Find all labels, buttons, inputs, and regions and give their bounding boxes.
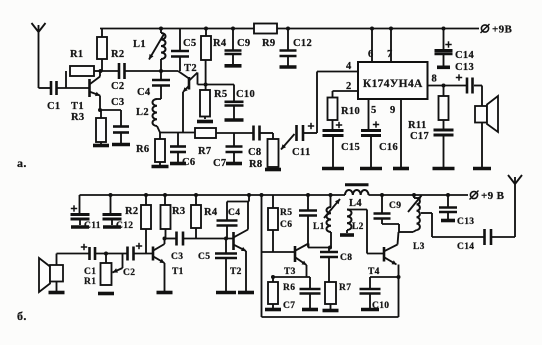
svg-text:C10: C10 <box>372 301 389 311</box>
svg-text:4: 4 <box>346 61 352 72</box>
svg-text:R4: R4 <box>213 38 227 49</box>
svg-text:а.: а. <box>17 156 27 170</box>
svg-text:+9В: +9В <box>492 24 512 36</box>
svg-text:C2: C2 <box>111 81 125 92</box>
svg-text:R1: R1 <box>84 277 96 287</box>
svg-text:+9 В: +9 В <box>481 190 505 202</box>
svg-text:C3: C3 <box>171 252 183 262</box>
svg-text:R7: R7 <box>339 283 351 293</box>
svg-text:5: 5 <box>371 105 377 116</box>
svg-text:C10: C10 <box>236 89 255 100</box>
svg-text:R5: R5 <box>280 208 292 218</box>
svg-text:C1: C1 <box>84 267 96 277</box>
svg-text:R8: R8 <box>249 159 263 170</box>
svg-text:C15: C15 <box>341 142 360 153</box>
svg-text:C2: C2 <box>123 268 135 278</box>
svg-text:R5: R5 <box>214 89 228 100</box>
svg-text:C1: C1 <box>47 101 61 112</box>
svg-text:9: 9 <box>390 105 396 116</box>
svg-text:6: 6 <box>368 49 374 60</box>
svg-text:R11: R11 <box>408 120 427 131</box>
svg-text:б.: б. <box>17 309 27 323</box>
svg-text:R3: R3 <box>172 206 186 217</box>
svg-text:T3: T3 <box>284 267 296 277</box>
svg-text:R3: R3 <box>71 112 85 123</box>
svg-text:L1: L1 <box>313 222 325 232</box>
svg-text:C9: C9 <box>237 38 251 49</box>
svg-text:C12: C12 <box>116 221 133 231</box>
svg-text:C7: C7 <box>213 158 227 169</box>
svg-text:R4: R4 <box>204 207 218 218</box>
svg-text:C11: C11 <box>292 147 311 158</box>
svg-text:L2: L2 <box>136 107 149 118</box>
svg-text:7: 7 <box>387 49 393 60</box>
svg-text:R10: R10 <box>341 106 360 117</box>
svg-text:R6: R6 <box>136 144 150 155</box>
svg-text:R7: R7 <box>198 146 212 157</box>
svg-text:C5: C5 <box>183 38 197 49</box>
svg-text:C4: C4 <box>228 208 240 218</box>
svg-text:T1: T1 <box>172 267 184 277</box>
svg-text:R2: R2 <box>125 206 139 217</box>
svg-text:C9: C9 <box>389 201 401 211</box>
svg-text:R1: R1 <box>70 49 84 60</box>
svg-text:T2: T2 <box>184 63 197 74</box>
svg-text:R2: R2 <box>111 49 125 60</box>
svg-text:C8: C8 <box>340 253 352 263</box>
svg-text:8: 8 <box>432 74 438 85</box>
svg-text:T4: T4 <box>368 267 380 277</box>
svg-text:C3: C3 <box>111 97 125 108</box>
svg-text:L1: L1 <box>133 39 146 50</box>
svg-text:C13: C13 <box>457 217 474 227</box>
svg-text:T2: T2 <box>230 267 242 277</box>
svg-text:C14: C14 <box>457 242 474 252</box>
svg-text:C17: C17 <box>410 131 429 142</box>
svg-text:C11: C11 <box>84 221 101 231</box>
svg-text:R6: R6 <box>283 283 295 293</box>
svg-text:C6: C6 <box>280 220 292 230</box>
svg-text:C13: C13 <box>455 62 474 73</box>
svg-text:C12: C12 <box>293 38 312 49</box>
svg-text:C5: C5 <box>198 252 210 262</box>
svg-text:L3: L3 <box>413 242 425 252</box>
svg-text:К174УН4А: К174УН4А <box>363 78 423 90</box>
svg-text:L4: L4 <box>349 198 362 209</box>
svg-text:T1: T1 <box>71 101 84 112</box>
svg-text:C7: C7 <box>283 301 295 311</box>
svg-text:C8: C8 <box>248 147 262 158</box>
svg-text:C14: C14 <box>455 50 475 61</box>
svg-text:C16: C16 <box>379 142 398 153</box>
svg-text:R9: R9 <box>262 38 276 49</box>
svg-text:C6: C6 <box>182 157 196 168</box>
svg-text:L2: L2 <box>352 222 364 232</box>
svg-text:C4: C4 <box>137 87 151 98</box>
